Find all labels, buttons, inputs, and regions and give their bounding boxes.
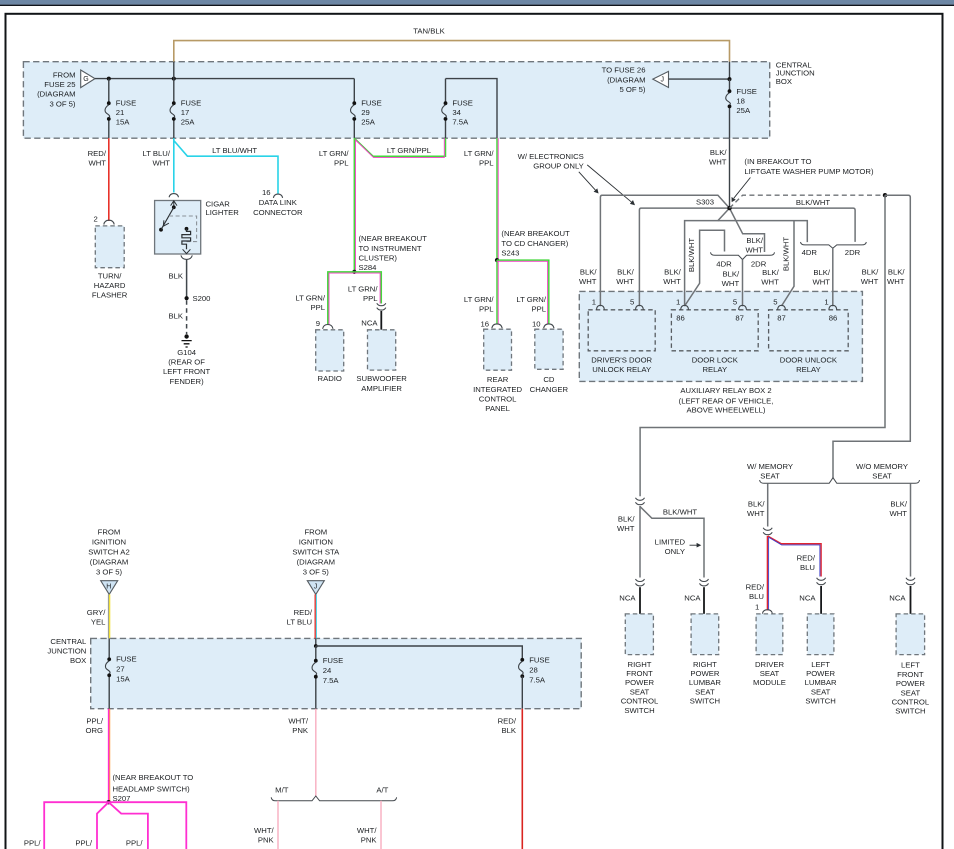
wire BLK/WHT to right front power seat control switch: [639, 506, 641, 578]
svg-text:W/O MEMORY: W/O MEMORY: [856, 462, 908, 471]
svg-text:ORG: ORG: [85, 726, 103, 735]
svg-text:WHT/: WHT/: [357, 826, 378, 835]
svg-text:(NEAR BREAKOUT TO: (NEAR BREAKOUT TO: [113, 773, 194, 782]
svg-text:CENTRAL: CENTRAL: [50, 637, 87, 646]
component DRIVER SEAT MODULE: [756, 614, 783, 655]
wire BLK/WHT w/ memory drop: [767, 483, 769, 526]
label (NEAR BREAKOUT TO INSTRUMENT CLUSTER) S284: [359, 234, 428, 272]
wire LT GRN/PPL to rear integrated control panel: [497, 260, 498, 324]
svg-text:4DR: 4DR: [802, 248, 818, 257]
svg-text:FROM: FROM: [304, 527, 327, 536]
svg-text:(DIAGRAM: (DIAGRAM: [90, 557, 128, 566]
inline connector (RPLSS): [700, 579, 709, 586]
svg-text:2: 2: [94, 215, 98, 224]
svg-text:5: 5: [773, 298, 777, 307]
svg-text:10: 10: [532, 320, 541, 329]
wire LT BLU/WHT to data link connector: [174, 141, 278, 194]
svg-text:LT BLU/: LT BLU/: [143, 149, 171, 158]
svg-text:7.5A: 7.5A: [323, 676, 340, 685]
svg-text:AUXILIARY RELAY BOX 2: AUXILIARY RELAY BOX 2: [680, 386, 771, 395]
junction dot memory: [883, 193, 887, 197]
wire brace to relay2 pin5: [742, 260, 744, 307]
svg-text:(REAR OF: (REAR OF: [168, 358, 205, 367]
svg-text:W/ ELECTRONICS: W/ ELECTRONICS: [518, 152, 584, 161]
svg-text:15A: 15A: [116, 675, 131, 684]
wire dashed S303 to memory junction: [730, 195, 886, 208]
svg-text:MODULE: MODULE: [753, 678, 786, 687]
svg-text:SUBWOOFER: SUBWOOFER: [356, 374, 407, 383]
svg-text:21: 21: [116, 108, 125, 117]
wire WHT/PNK A/T drop: [380, 801, 382, 849]
svg-text:LT GRN/: LT GRN/: [516, 295, 546, 304]
wire rail drop to relay3 pin5: [782, 221, 795, 306]
splice S200: [185, 296, 189, 300]
svg-text:POWER: POWER: [625, 678, 654, 687]
wire LT GRN/PPL to S284: [354, 138, 355, 272]
wire rail to relay3 (right portion): [718, 221, 807, 243]
wire bus to fuse 28: [316, 646, 523, 660]
relay 2 DOOR LOCK RELAY: [671, 310, 758, 351]
svg-text:WHT/: WHT/: [288, 716, 309, 725]
label WHT/PNK: [288, 716, 309, 735]
wire fuse34 feed to x497 drop: [446, 79, 498, 139]
svg-text:FUSE: FUSE: [361, 99, 382, 108]
wire GRY/YEL: [108, 594, 109, 638]
connector arc CD changer: [544, 324, 554, 328]
label LT GRN/PPL: [319, 149, 349, 168]
svg-text:CONTROL: CONTROL: [621, 697, 659, 706]
svg-text:LT BLU: LT BLU: [287, 618, 312, 627]
svg-text:LIMITED: LIMITED: [655, 538, 686, 547]
svg-text:17: 17: [181, 108, 190, 117]
svg-text:86: 86: [676, 314, 685, 323]
wire PPL left branch: [44, 802, 108, 849]
svg-text:WHT: WHT: [861, 277, 879, 286]
fuse F29: [351, 79, 382, 139]
relay 1 DRIVER'S DOOR UNLOCK RELAY: [588, 310, 655, 351]
inline connector (left branch): [636, 498, 645, 505]
svg-text:RADIO: RADIO: [318, 374, 342, 383]
svg-text:SWITCH STA: SWITCH STA: [292, 547, 340, 556]
svg-text:(DIAGRAM: (DIAGRAM: [37, 90, 75, 99]
fuse F28: [519, 656, 550, 709]
svg-text:PNK: PNK: [292, 726, 309, 735]
wire BLK from cigar lighter: [186, 259, 188, 297]
label BLK/WHT (relay3 pin5 wire): [761, 268, 779, 287]
svg-text:SWITCH A2: SWITCH A2: [88, 547, 129, 556]
wire LT BLU/WHT vertical: [173, 138, 175, 192]
wire BLK/WHT limited-only branch: [640, 507, 704, 578]
label W/O MEMORY SEAT: [856, 462, 908, 481]
svg-text:PPL: PPL: [531, 305, 546, 314]
svg-text:BLK/: BLK/: [618, 515, 636, 524]
central junction box (upper): [23, 62, 769, 139]
svg-text:BLK/: BLK/: [617, 268, 635, 277]
svg-text:WHT: WHT: [709, 158, 727, 167]
svg-text:5: 5: [630, 298, 634, 307]
svg-text:POWER: POWER: [690, 669, 719, 678]
arrow 1 to rail: [579, 172, 599, 194]
junction dot fuse24 bus: [314, 644, 318, 648]
svg-text:(IN BREAKOUT TO: (IN BREAKOUT TO: [744, 157, 811, 166]
wire RED/BLK from fuse 28: [521, 709, 523, 849]
connector arcs relay2 pins: [681, 305, 689, 310]
svg-text:NCA: NCA: [684, 593, 701, 602]
svg-text:CIGAR: CIGAR: [206, 199, 231, 208]
svg-text:PPL/: PPL/: [24, 838, 42, 847]
wire LT GRN/PPL to cd changer: [497, 260, 549, 324]
svg-text:DATA LINK: DATA LINK: [259, 198, 298, 207]
svg-text:LT GRN/: LT GRN/: [295, 294, 325, 303]
label LT BLU/WHT (left): [143, 149, 171, 168]
svg-text:FROM: FROM: [98, 527, 121, 536]
label W/ MEMORY SEAT: [747, 462, 793, 481]
svg-text:PPL/: PPL/: [75, 838, 93, 847]
svg-text:WHT: WHT: [887, 277, 905, 286]
svg-text:BOX: BOX: [776, 77, 792, 86]
svg-text:FUSE: FUSE: [736, 87, 757, 96]
inline connector (driver seat): [763, 528, 772, 535]
svg-text:SEAT: SEAT: [811, 687, 831, 696]
connector arcs relay3 pins: [778, 305, 786, 310]
svg-text:7.5A: 7.5A: [452, 118, 469, 127]
svg-text:(NEAR BREAKOUT: (NEAR BREAKOUT: [501, 229, 570, 238]
svg-text:5: 5: [733, 298, 737, 307]
wire NCA black: [703, 587, 705, 614]
svg-text:REAR: REAR: [487, 375, 509, 384]
connector triangle J (TO FUSE 26): [653, 71, 669, 87]
component TURN/HAZARD FLASHER: [95, 226, 124, 268]
wire RED/BLU to driver seat module: [767, 536, 768, 610]
svg-text:SWITCH: SWITCH: [895, 707, 925, 716]
label G104 (REAR OF LEFT FRONT FENDER): [163, 348, 211, 386]
svg-text:SEAT: SEAT: [901, 688, 921, 697]
svg-text:NCA: NCA: [619, 593, 636, 602]
central junction box (lower): [91, 638, 582, 708]
svg-text:PPL: PPL: [479, 305, 494, 314]
svg-text:FUSE: FUSE: [323, 656, 344, 665]
junction dot fuse 18: [728, 77, 732, 81]
svg-text:SWITCH: SWITCH: [805, 697, 835, 706]
svg-text:J: J: [314, 584, 318, 591]
connector arc driver seat module: [762, 610, 772, 614]
label FROM FUSE 25 (DIAGRAM 3 OF 5): [37, 71, 76, 109]
cigar lighter switch: [159, 205, 176, 231]
svg-text:WHT: WHT: [761, 278, 779, 287]
splice S303 dot: [727, 206, 731, 210]
component CD CHANGER: [535, 329, 563, 369]
svg-text:GRY/: GRY/: [87, 608, 107, 617]
splice S207: [106, 800, 110, 804]
component REAR INTEGRATED CONTROL PANEL: [484, 329, 512, 370]
fuse F27: [105, 638, 136, 708]
wire memory junction down-left branch: [640, 195, 885, 496]
wire LT GRN/PPL to S243: [497, 138, 498, 260]
svg-text:2DR: 2DR: [845, 248, 861, 257]
svg-text:27: 27: [116, 665, 125, 674]
wire NCA black: [820, 586, 822, 614]
label LT GRN/PPL: [295, 294, 325, 313]
wire NCA black to subwoofer: [380, 311, 382, 330]
svg-text:NCA: NCA: [889, 593, 906, 602]
svg-text:IGNITION: IGNITION: [92, 537, 126, 546]
junction dot at fuse 17: [172, 77, 176, 81]
wire PPL right branch: [109, 802, 187, 849]
svg-text:PNK: PNK: [361, 836, 378, 845]
label LT GRN/PPL: [348, 285, 378, 304]
connector arcs relay1 pins: [596, 305, 604, 310]
brace 4DR/2DR relay2: [711, 252, 775, 259]
wire WHT/PNK M/T drop: [277, 801, 279, 849]
svg-text:87: 87: [735, 314, 744, 323]
svg-text:BLK: BLK: [501, 726, 516, 735]
svg-text:BLK/: BLK/: [710, 148, 728, 157]
svg-text:25A: 25A: [181, 118, 196, 127]
wire relay2 jumper pin1 to 4DR: [685, 230, 725, 306]
component AUXILIARY RELAY BOX 2: [579, 291, 862, 381]
svg-text:LIFTGATE WASHER PUMP MOTOR): LIFTGATE WASHER PUMP MOTOR): [744, 167, 874, 176]
svg-text:CONTROL: CONTROL: [892, 698, 930, 707]
svg-text:FRONT: FRONT: [626, 669, 653, 678]
svg-text:BLK/: BLK/: [813, 268, 831, 277]
svg-text:18: 18: [736, 97, 745, 106]
svg-text:FUSE: FUSE: [116, 655, 137, 664]
svg-text:9: 9: [316, 319, 320, 328]
svg-text:TO INSTRUMENT: TO INSTRUMENT: [359, 244, 422, 253]
svg-text:PPL/: PPL/: [86, 716, 104, 725]
label (NEAR BREAKOUT TO HEADLAMP SWITCH) S207: [113, 773, 194, 803]
label (NEAR BREAKOUT TO CD CHANGER) S243: [501, 229, 570, 257]
component LEFT POWER LUMBAR SEAT SWITCH: [807, 614, 834, 655]
label WHT/PNK: [254, 826, 275, 845]
svg-text:FUSE: FUSE: [452, 99, 473, 108]
wire BLK dashed to ground: [186, 300, 188, 334]
svg-text:ABOVE WHEELWELL): ABOVE WHEELWELL): [687, 406, 766, 415]
label RED/BLU: [797, 554, 816, 573]
label DATA LINK CONNECTOR: [253, 198, 303, 217]
svg-text:PPL: PPL: [479, 159, 494, 168]
svg-text:S243: S243: [501, 248, 519, 257]
svg-text:BLK/: BLK/: [888, 268, 906, 277]
svg-text:BLK/: BLK/: [748, 500, 766, 509]
connector triangle H: [101, 581, 118, 595]
component LEFT FRONT POWER SEAT CONTROL SWITCH: [896, 614, 925, 655]
label CENTRAL JUNCTION BOX (lower): [47, 637, 87, 665]
svg-text:(DIAGRAM: (DIAGRAM: [297, 557, 335, 566]
wire WHT/PNK from fuse 24: [315, 709, 317, 797]
svg-text:WHT: WHT: [745, 246, 763, 255]
svg-text:15A: 15A: [116, 118, 131, 127]
label BLK/WHT (relay2 2DR): [745, 236, 763, 254]
svg-text:CLUSTER): CLUSTER): [359, 253, 398, 262]
svg-text:JUNCTION: JUNCTION: [47, 647, 86, 656]
svg-text:LT GRN/: LT GRN/: [464, 149, 494, 158]
svg-text:ONLY: ONLY: [665, 547, 685, 556]
svg-text:87: 87: [777, 314, 786, 323]
brace memory seat split: [760, 478, 920, 484]
svg-text:RIGHT: RIGHT: [628, 660, 652, 669]
svg-text:3 OF 5): 3 OF 5): [49, 99, 75, 108]
svg-text:DRIVER: DRIVER: [755, 660, 784, 669]
svg-text:BLK/: BLK/: [580, 268, 598, 277]
wire BLK/WHT w/o memory drop: [910, 483, 912, 576]
labels BLK/WHT row above relay box: [579, 268, 597, 287]
fuse F24: [312, 646, 343, 709]
label WHT/PNK: [357, 826, 378, 845]
note LIMITED ONLY: [655, 538, 686, 557]
component CIGAR LIGHTER box: [155, 201, 201, 255]
svg-text:CD: CD: [543, 375, 555, 384]
connector triangle G (FROM FUSE 25): [81, 70, 95, 88]
svg-text:RED/: RED/: [498, 716, 517, 725]
svg-text:G104: G104: [177, 348, 197, 357]
svg-text:HEADLAMP SWITCH): HEADLAMP SWITCH): [113, 784, 191, 793]
svg-text:CHANGER: CHANGER: [530, 385, 569, 394]
connector arc radio: [323, 325, 333, 329]
svg-text:YEL: YEL: [91, 618, 106, 627]
connector arc cigar lighter: [169, 194, 178, 198]
svg-text:1: 1: [592, 298, 596, 307]
wire S303 to relay1 pin1 rail: [600, 195, 729, 306]
svg-text:CONNECTOR: CONNECTOR: [253, 208, 303, 217]
svg-text:PPL: PPL: [363, 294, 378, 303]
svg-text:W/ MEMORY: W/ MEMORY: [747, 462, 793, 471]
svg-text:BLU: BLU: [749, 592, 764, 601]
svg-text:SWITCH: SWITCH: [690, 697, 720, 706]
svg-text:WHT: WHT: [812, 278, 830, 287]
svg-text:PPL: PPL: [310, 303, 325, 312]
svg-text:LT GRN/: LT GRN/: [319, 149, 349, 158]
fuse F18: [726, 79, 757, 138]
svg-text:BLK: BLK: [168, 271, 183, 280]
svg-text:RED/: RED/: [746, 583, 765, 592]
wire BLK/WHT from fuse 18 to S303: [729, 138, 731, 208]
svg-text:BLK/WHT: BLK/WHT: [663, 508, 697, 517]
cigar lighter internal arrow up: [171, 201, 177, 207]
svg-text:LEFT: LEFT: [811, 660, 830, 669]
svg-text:A/T: A/T: [376, 785, 388, 794]
svg-text:BLK/: BLK/: [890, 500, 908, 509]
label BLK/WHT: [617, 515, 635, 534]
svg-text:SEAT: SEAT: [872, 472, 892, 481]
label BLK/WHT: [709, 148, 727, 167]
svg-text:RELAY: RELAY: [702, 365, 727, 374]
svg-text:(LEFT REAR OF VEHICLE,: (LEFT REAR OF VEHICLE,: [679, 396, 774, 405]
svg-text:TAN/BLK: TAN/BLK: [413, 27, 445, 36]
svg-text:WHT: WHT: [88, 159, 106, 168]
svg-text:FUSE: FUSE: [116, 99, 137, 108]
svg-text:FUSE: FUSE: [529, 656, 550, 665]
svg-text:WHT: WHT: [617, 524, 635, 533]
svg-text:SEAT: SEAT: [760, 669, 780, 678]
wire tan drop inside box left: [173, 62, 175, 79]
note W/ ELECTRONICS GROUP ONLY: [518, 152, 584, 171]
svg-text:AMPLIFIER: AMPLIFIER: [361, 384, 402, 393]
svg-text:LT BLU/WHT: LT BLU/WHT: [212, 146, 257, 155]
svg-text:BLK/: BLK/: [862, 268, 880, 277]
cigar lighter internal dashed box: [169, 216, 197, 242]
svg-text:34: 34: [452, 108, 461, 117]
arrow from note to S303: [732, 178, 751, 203]
label LT GRN/PPL: [464, 295, 494, 314]
label BLK/WHT (relay3 pin1 wire): [812, 268, 830, 287]
svg-text:3 OF 5): 3 OF 5): [96, 567, 122, 576]
svg-text:SEAT: SEAT: [630, 687, 650, 696]
svg-text:M/T: M/T: [275, 785, 289, 794]
svg-text:H: H: [106, 584, 111, 591]
svg-text:CONTROL: CONTROL: [479, 394, 517, 403]
svg-text:24: 24: [323, 666, 332, 675]
svg-text:NCA: NCA: [799, 593, 816, 602]
wire RED/BLU branch to left power lumbar seat switch: [768, 536, 821, 577]
svg-text:TO CD CHANGER): TO CD CHANGER): [501, 239, 568, 248]
svg-text:WHT: WHT: [889, 509, 907, 518]
svg-text:RELAY: RELAY: [796, 365, 821, 374]
svg-text:TO FUSE 26: TO FUSE 26: [602, 66, 646, 75]
svg-text:HAZARD: HAZARD: [94, 281, 126, 290]
svg-text:LUMBAR: LUMBAR: [805, 678, 837, 687]
svg-text:LUMBAR: LUMBAR: [689, 678, 721, 687]
splice S243: [495, 258, 499, 262]
svg-text:BLK/WHT: BLK/WHT: [687, 238, 696, 272]
svg-text:BLU: BLU: [800, 563, 815, 572]
svg-text:FUSE: FUSE: [181, 99, 202, 108]
inline connector (subwoofer): [377, 303, 386, 310]
svg-text:IGNITION: IGNITION: [299, 537, 333, 546]
connector triangle J (ignition): [307, 581, 324, 595]
label GRY/YEL: [87, 608, 107, 627]
connector arc turn/hazard flasher: [104, 220, 114, 224]
svg-text:WHT: WHT: [616, 277, 634, 286]
svg-text:5 OF 5): 5 OF 5): [619, 85, 645, 94]
svg-text:25A: 25A: [361, 118, 376, 127]
wire S303 to relay3 2DR rail: [730, 208, 856, 242]
svg-text:BLK/: BLK/: [664, 268, 682, 277]
connector arc below cigar lighter: [181, 255, 192, 259]
label BLK/WHT: [889, 500, 907, 519]
label TO FUSE 26 (DIAGRAM 5 OF 5): [602, 66, 646, 94]
svg-text:16: 16: [262, 188, 271, 197]
svg-text:3 OF 5): 3 OF 5): [303, 567, 329, 576]
svg-text:LEFT: LEFT: [901, 661, 920, 670]
relay 3 DOOR UNLOCK RELAY: [769, 310, 849, 351]
wire memory junction right branch: [833, 195, 910, 478]
wire inside box to junction: [315, 638, 317, 646]
svg-text:LT GRN/: LT GRN/: [348, 285, 378, 294]
label RED/LT BLU: [287, 608, 313, 627]
label RED/BLU: [746, 583, 765, 602]
label RED/WHT: [88, 149, 107, 168]
svg-text:S284: S284: [359, 263, 378, 272]
svg-text:BLK/: BLK/: [746, 236, 764, 245]
wire NCA black: [639, 587, 641, 614]
svg-text:7.5A: 7.5A: [529, 676, 546, 685]
svg-text:POWER: POWER: [806, 669, 835, 678]
inline connector (LFPSCS): [906, 578, 915, 585]
svg-text:(DIAGRAM: (DIAGRAM: [607, 75, 645, 84]
svg-text:DRIVER'S DOOR: DRIVER'S DOOR: [591, 355, 652, 364]
label AUXILIARY RELAY BOX 2: [679, 386, 774, 415]
label FROM IGNITION SWITCH STA (DIAGRAM 3 OF 5): [292, 527, 340, 576]
brace M/T A/T split: [271, 796, 396, 801]
wire LT GRN/PPL to radio: [328, 272, 355, 324]
wire S303 to relay2 2DR: [730, 208, 765, 252]
component SUBWOOFER AMPLIFIER: [368, 330, 396, 370]
svg-text:SWITCH: SWITCH: [624, 706, 654, 715]
junction dot at fuse 21: [107, 77, 111, 81]
svg-text:1: 1: [824, 298, 828, 307]
wire NCA black: [910, 586, 912, 614]
